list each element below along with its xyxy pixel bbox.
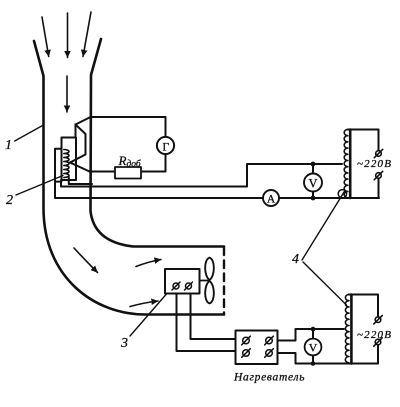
autotransformer T1 winding bbox=[344, 130, 348, 198]
junction dot bottom bbox=[311, 196, 316, 201]
flow arrow above funnel left bbox=[42, 17, 49, 57]
svg-text:V: V bbox=[308, 176, 317, 190]
wire to Rdob resistor bbox=[90, 171, 116, 173]
flow arrow in horizontal duct bottom bbox=[130, 301, 158, 307]
svg-text:3: 3 bbox=[120, 336, 128, 351]
probe holder rectangle bbox=[55, 149, 62, 182]
flow arrow in horizontal duct top bbox=[136, 260, 161, 267]
svg-text:V: V bbox=[309, 341, 318, 355]
junction dot V2 bottom bbox=[311, 361, 316, 366]
wire probe lower prong diagonal bbox=[70, 163, 90, 172]
duct outlet dashed end bbox=[223, 248, 225, 314]
galvanometer G bbox=[157, 137, 174, 154]
autotransformer T1 core bar bbox=[349, 130, 352, 199]
T1 terminal lower bbox=[376, 173, 382, 179]
flow arrow above funnel middle bbox=[67, 13, 69, 58]
fan shaft bbox=[200, 280, 210, 282]
leader line 2 bbox=[16, 176, 63, 196]
voltmeter V upper lead bottom bbox=[312, 192, 314, 199]
voltmeter V2 lead top bbox=[312, 329, 314, 339]
wire probe to top bus diagonal bbox=[76, 117, 91, 125]
leader line 4 lower bbox=[303, 262, 347, 305]
wire bridge line C from probe holder bbox=[55, 182, 379, 198]
T2 bottom wire bbox=[377, 345, 379, 364]
T1 winding bottom curl bbox=[338, 190, 346, 198]
flow arrow inside funnel bbox=[66, 76, 68, 112]
svg-text:Нагреватель: Нагреватель bbox=[233, 372, 305, 384]
T1 terminal upper bbox=[376, 151, 382, 157]
svg-text:2: 2 bbox=[6, 193, 13, 208]
fan blade upper bbox=[205, 258, 214, 280]
svg-text:~220В: ~220В bbox=[357, 329, 392, 341]
wire probe prong bracket bbox=[70, 125, 86, 163]
T2 terminal lower bbox=[375, 339, 381, 345]
fan blade lower bbox=[205, 281, 214, 303]
svg-text:4: 4 bbox=[292, 252, 299, 267]
motor terminal left bbox=[173, 283, 179, 289]
junction dot top bbox=[311, 162, 316, 167]
ammeter A bbox=[263, 190, 279, 206]
junction dot V2 top bbox=[311, 327, 316, 332]
wire galvanometer bottom bbox=[141, 154, 166, 171]
svg-text:~220В: ~220В bbox=[357, 158, 392, 170]
wire heater to V2 top bbox=[278, 329, 345, 341]
svg-text:Rдоб: Rдоб bbox=[118, 153, 142, 170]
T1 bottom wire bbox=[350, 179, 379, 199]
wire bridge line B from probe bbox=[61, 164, 342, 187]
heater terminal top-left bbox=[243, 337, 250, 344]
T2 top wire bbox=[349, 295, 379, 317]
svg-text:A: A bbox=[267, 194, 276, 206]
heater terminal bottom-left bbox=[243, 350, 250, 357]
voltmeter V upper lead top bbox=[312, 164, 314, 174]
autotransformer T2 core bar bbox=[350, 295, 353, 364]
wire probe top lead bbox=[75, 125, 77, 138]
voltmeter V upper bbox=[304, 174, 322, 192]
voltmeter V2 lead bottom bbox=[312, 355, 314, 363]
hot-wire coil element 2 bbox=[64, 150, 69, 178]
autotransformer T2 winding bbox=[345, 295, 349, 363]
wire galvanometer top bus bbox=[91, 117, 166, 137]
flow arrow in elbow bend bbox=[74, 248, 98, 273]
resistor Rdob box bbox=[115, 167, 141, 179]
motor terminal right bbox=[186, 283, 192, 289]
duct inner wall (right flare, right wall, inner elbow bend, top edge) bbox=[91, 39, 225, 247]
wire heater to V2 bottom bbox=[278, 353, 379, 364]
duct outer wall (left flare, left wall, outer elbow bend, bottom edge) bbox=[34, 41, 224, 315]
flow arrow above funnel right bbox=[83, 12, 91, 57]
wire motor left lead bbox=[177, 294, 236, 352]
leader line 4 upper bbox=[302, 191, 345, 261]
leader line 1 bbox=[15, 125, 44, 141]
fan motor box bbox=[165, 269, 200, 294]
heater terminal bottom-right bbox=[266, 350, 273, 357]
svg-text:1: 1 bbox=[5, 138, 12, 153]
wire coil bottom jog bbox=[69, 177, 92, 184]
svg-text:Г: Г bbox=[162, 141, 169, 153]
T2 terminal upper bbox=[375, 317, 381, 323]
heater terminal box bbox=[236, 331, 278, 365]
leader line 3 bbox=[130, 295, 166, 337]
T1 top wire bbox=[348, 130, 379, 151]
voltmeter V lower bbox=[305, 339, 322, 356]
heater terminal top-right bbox=[266, 337, 273, 344]
probe body rectangle bbox=[62, 138, 77, 181]
wire motor right lead bbox=[191, 294, 236, 340]
